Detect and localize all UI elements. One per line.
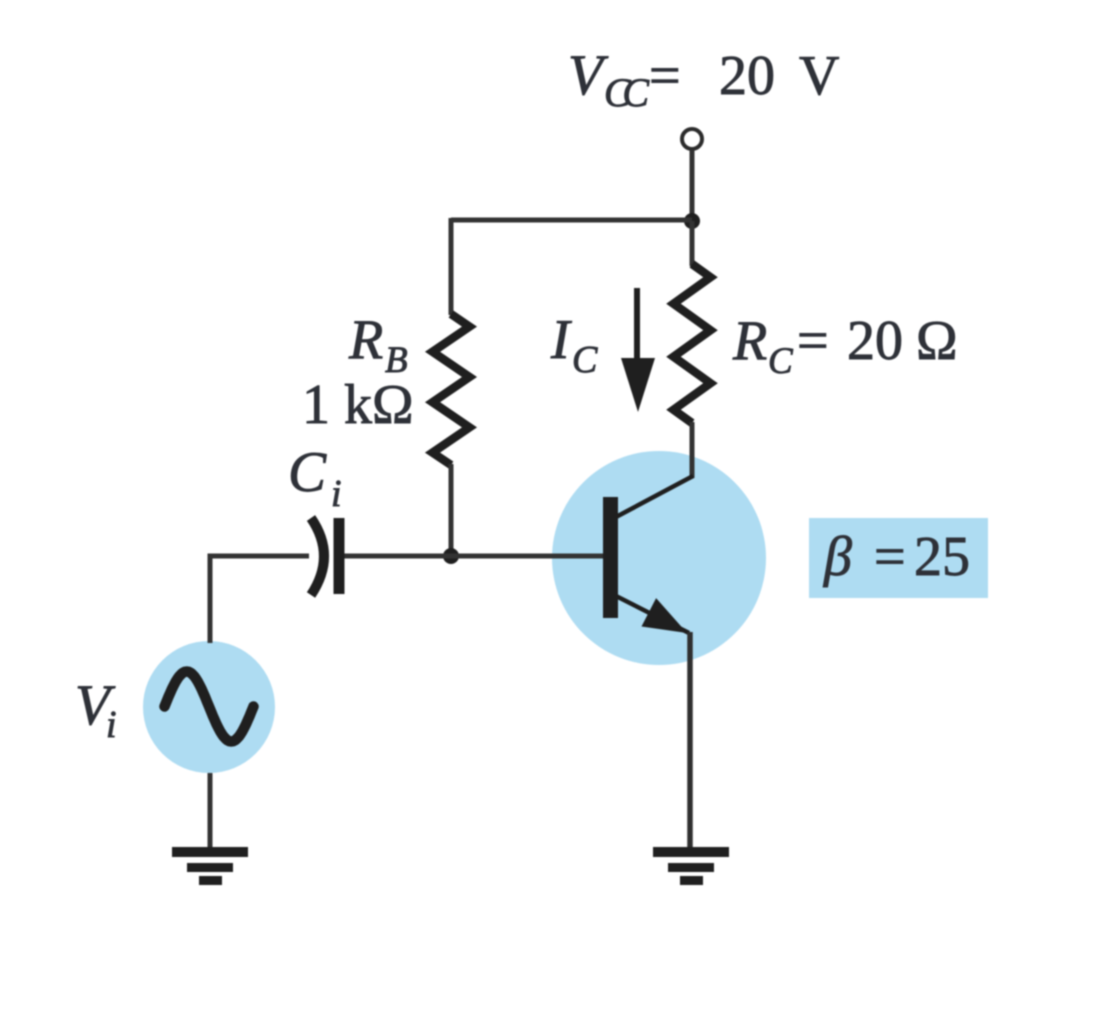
current arrow IC head: [621, 358, 655, 412]
transistor Q1 highlight circle: [552, 451, 766, 665]
wire source to ground: [208, 773, 213, 852]
wire top horizontal to RB: [451, 218, 692, 223]
wire RC to collector: [690, 422, 695, 478]
svg-text:I: I: [550, 309, 572, 371]
ground (emitter): [653, 847, 729, 885]
svg-text:CC: CC: [604, 70, 650, 115]
wire VCC junction to RC: [690, 221, 695, 266]
source Vi highlight circle: [143, 641, 275, 773]
wire capacitor to base: [341, 554, 603, 559]
svg-text:C: C: [768, 341, 794, 382]
svg-text:R: R: [732, 310, 767, 372]
svg-text:C: C: [288, 441, 327, 504]
node VCC supply terminal: [682, 129, 702, 149]
wire emitter to ground: [687, 632, 693, 852]
svg-text:R: R: [348, 309, 383, 371]
svg-text:i: i: [106, 704, 117, 746]
transistor Q1 emitter arrowhead: [642, 598, 688, 633]
resistor RC: [674, 264, 711, 423]
resistor RB: [433, 314, 470, 465]
transistor Q1 emitter lead: [616, 596, 689, 633]
svg-text:=: =: [649, 45, 681, 107]
wire source to capacitor: [210, 556, 309, 643]
junction at VCC rail: [684, 213, 700, 229]
svg-text:Ω: Ω: [916, 310, 958, 372]
svg-text:C: C: [572, 339, 598, 381]
wire RB top lead: [449, 218, 454, 315]
svg-text:i: i: [331, 473, 342, 515]
svg-text:V: V: [568, 44, 609, 107]
current arrow IC line: [634, 288, 640, 366]
label box β = 25: [809, 518, 988, 598]
svg-text:1 kΩ: 1 kΩ: [302, 374, 414, 436]
svg-text:V: V: [799, 45, 839, 107]
capacitor Ci curved plate: [311, 518, 324, 595]
svg-text:=: =: [797, 310, 829, 372]
wire VCC terminal to junction: [690, 150, 695, 221]
source Vi sine wave: [165, 672, 254, 742]
ground (source): [172, 847, 248, 885]
capacitor Ci straight plate: [334, 518, 345, 594]
wire RB bottom lead: [449, 464, 454, 556]
transistor Q1 base bar: [603, 497, 618, 618]
svg-text:=: =: [874, 526, 906, 588]
transistor Q1 collector lead: [616, 476, 693, 517]
junction base node: [443, 548, 459, 564]
svg-text:20: 20: [719, 45, 775, 107]
svg-text:20: 20: [847, 310, 903, 372]
svg-text:β: β: [823, 526, 852, 588]
svg-text:25: 25: [914, 526, 970, 588]
